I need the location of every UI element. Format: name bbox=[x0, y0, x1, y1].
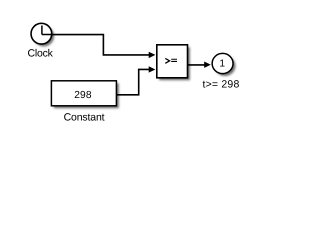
constant block body bbox=[51, 81, 116, 106]
relational operator block shadow bbox=[159, 47, 190, 80]
outport block 1 body bbox=[212, 53, 233, 73]
svg-text:Constant: Constant bbox=[64, 111, 105, 123]
wire Constant to RelOp input 2 bbox=[116, 69, 149, 94]
svg-text:t>= 298: t>= 298 bbox=[202, 78, 239, 90]
relational operator symbol = bars bbox=[171, 59, 177, 61]
relational operator symbol > chevron bbox=[165, 58, 169, 63]
relational operator block body bbox=[157, 45, 188, 78]
wire Clock to RelOp input 1 bbox=[51, 35, 150, 55]
arrowhead into RelOp port 1 bbox=[149, 52, 156, 58]
outport block 1 shadow bbox=[215, 56, 236, 76]
constant block shadow bbox=[54, 83, 119, 108]
clock block Clock body bbox=[31, 23, 52, 44]
wire RelOp output to Outport bbox=[188, 64, 205, 66]
svg-text:1: 1 bbox=[219, 59, 225, 70]
clock block Clock shadow bbox=[34, 26, 55, 47]
arrowhead into Outport bbox=[204, 62, 211, 68]
arrowhead into RelOp port 2 bbox=[149, 66, 156, 72]
svg-text:298: 298 bbox=[74, 90, 92, 101]
svg-text:Clock: Clock bbox=[27, 48, 53, 60]
clock hands bbox=[42, 26, 51, 35]
